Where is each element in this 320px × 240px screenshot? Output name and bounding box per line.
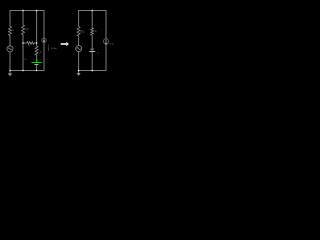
AC source V1	[7, 46, 13, 52]
ground G2	[77, 71, 81, 76]
wire: R1 to V1	[9, 36, 11, 46]
svg-text:50Ω: 50Ω	[80, 31, 85, 33]
background	[0, 0, 120, 84]
resistor R3 horizontal	[23, 42, 37, 45]
wire: right circuit branch x=78.6 upper	[78, 10, 80, 27]
resistor R4	[35, 46, 38, 55]
wire: left circuit branch x=36.6 upper	[36, 10, 38, 46]
ground G1	[8, 71, 13, 76]
wire: R6 to D1	[91, 35, 93, 48]
node dot (36.6,70)	[36, 70, 38, 72]
wire: D1 to bottom rail	[91, 51, 93, 71]
wire: faint stub near mid label	[48, 45, 50, 50]
wire: left circuit bottom rail	[10, 70, 44, 72]
wire: right circuit top rail	[79, 10, 106, 12]
wire: A2 to bottom rail	[105, 44, 107, 71]
wire: R5 to V3	[78, 36, 80, 46]
svg-text:50Ω: 50Ω	[25, 28, 29, 30]
svg-text:4.55m: 4.55m	[51, 48, 57, 50]
wire: A1 to bottom rail	[43, 42, 45, 71]
wire: right circuit bottom rail	[79, 70, 106, 72]
node dot (92.2,10)	[91, 10, 93, 12]
node dot (92.2,70)	[91, 70, 93, 72]
wire: R2 to node	[22, 35, 24, 44]
resistor R5	[77, 27, 80, 36]
ammeter A1	[42, 38, 46, 42]
resistor R1	[9, 27, 12, 36]
wire: green node lead	[36, 59, 38, 62]
node dot (23,70)	[22, 70, 24, 72]
wire: left circuit top rail	[10, 10, 44, 11]
resistor R6	[91, 28, 94, 35]
wire: right circuit branch x=92.2 upper	[91, 10, 93, 28]
AC source V3	[76, 46, 82, 52]
wire: right circuit branch x=106 upper	[105, 10, 107, 39]
wire: R4 to battery gray	[36, 55, 38, 59]
resistor R2	[22, 25, 25, 35]
wire: left circuit branch x=10 upper	[9, 10, 11, 27]
node dot (23,42.7)	[22, 42, 24, 44]
diode D1	[90, 49, 96, 52]
wire: V3 to bottom rail	[78, 52, 80, 71]
node dot (23,10)	[22, 10, 24, 12]
wire: left circuit right edge upper	[43, 10, 45, 38]
node dot (36.6,42.7)	[36, 42, 38, 44]
wire: left circuit branch x=23 upper	[22, 10, 24, 25]
wire: node to bottom rail x=23	[22, 43, 24, 71]
transform arrow	[61, 42, 69, 46]
node dot (10,70)	[9, 70, 11, 72]
node dot (78.6,70)	[78, 70, 80, 72]
battery V2	[31, 63, 41, 65]
svg-text:4mA: 4mA	[109, 43, 114, 46]
node dot (36.6,10)	[36, 10, 38, 12]
wire: V1 to bottom rail	[9, 52, 11, 71]
wire: battery to bottom rail	[36, 65, 38, 71]
ammeter A2	[103, 39, 108, 46]
